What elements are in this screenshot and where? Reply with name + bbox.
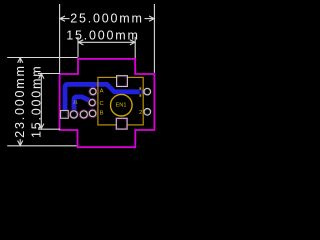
dimension 25.000mm witness right	[153, 4, 155, 73]
dimension 15.000mm top line and arrows	[78, 40, 135, 45]
dimension 23.000mm line and arrows	[18, 58, 23, 146]
dimension 15.000mm left witness top	[38, 73, 60, 75]
pad 1 right round	[144, 88, 151, 95]
wire trace T2 from J1 pad2 up and right to pad C	[74, 97, 92, 112]
pad A round	[89, 87, 97, 95]
pad 2 right round	[144, 109, 151, 116]
pad J1-2 round	[69, 110, 78, 119]
svg-text:25.000mm: 25.000mm	[70, 11, 143, 25]
dimension 25.000mm line and arrows	[60, 16, 155, 21]
svg-text:J1: J1	[73, 100, 78, 105]
pad C round	[88, 98, 96, 106]
dimension 23.000mm witness bottom	[7, 145, 76, 147]
dimension 15.000mm left witness bottom	[38, 128, 60, 130]
board outline Edge.Cuts cross shape	[60, 59, 155, 147]
svg-text:15.000mm: 15.000mm	[66, 28, 139, 42]
svg-text:EN1: EN1	[116, 102, 127, 108]
button EN1 circle	[111, 94, 133, 116]
svg-text:2: 2	[139, 110, 142, 116]
svg-text:15.000mm: 15.000mm	[29, 65, 43, 138]
dimension 15.000mm left line and arrows	[39, 74, 44, 130]
svg-text:B: B	[100, 111, 104, 117]
wire trace stub into pad A	[90, 84, 95, 91]
dimension 15.000mm top witness left	[77, 37, 79, 58]
label 1 on trace	[140, 90, 142, 95]
wire trace T1 from J1 pad1 up and right to pad 1	[65, 84, 148, 112]
courtyard outline EN1 footprint	[98, 77, 143, 125]
dimension 15.000mm top witness right	[134, 37, 136, 58]
dimension 23.000mm witness top	[7, 57, 77, 59]
svg-text:A: A	[100, 89, 104, 95]
svg-text:23.000mm: 23.000mm	[13, 64, 27, 137]
pad EN1 top square	[117, 76, 128, 87]
pad J1-1 square	[61, 111, 69, 119]
pad J1-3 round	[79, 110, 88, 119]
dimension 25.000mm witness left	[59, 4, 61, 73]
pad EN1 bottom square	[116, 118, 127, 129]
svg-text:C: C	[100, 101, 104, 107]
pad B round shared	[88, 109, 97, 118]
